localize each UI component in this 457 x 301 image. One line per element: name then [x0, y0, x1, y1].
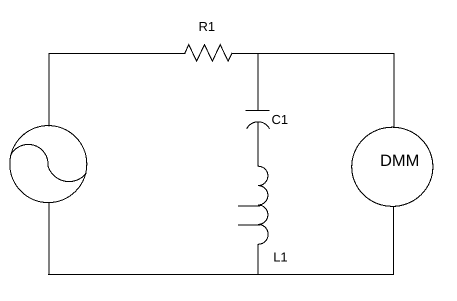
svg-text:DMM: DMM	[380, 152, 419, 170]
svg-text:L1: L1	[273, 250, 287, 265]
svg-text:R1: R1	[199, 19, 216, 34]
svg-text:C1: C1	[272, 112, 289, 127]
